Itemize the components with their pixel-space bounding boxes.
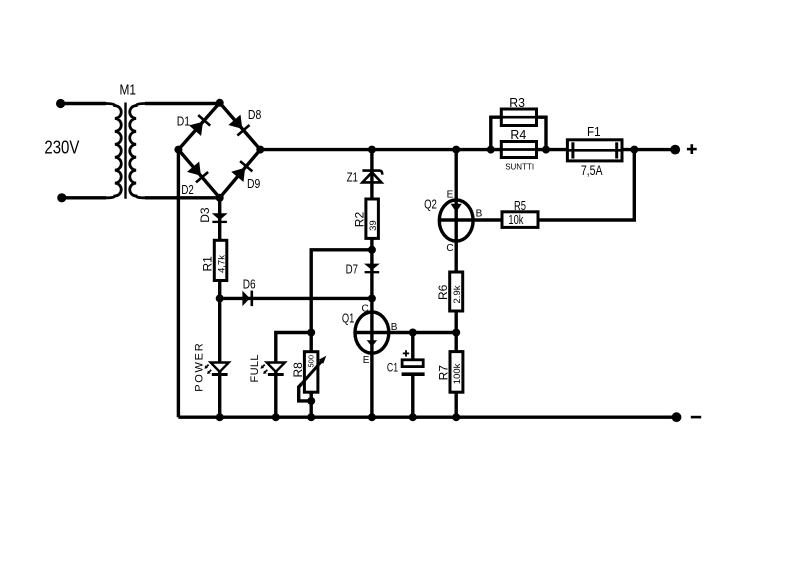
svg-text:R2: R2: [352, 212, 366, 228]
svg-text:B: B: [391, 322, 398, 333]
svg-text:R6: R6: [436, 284, 450, 300]
svg-text:C1: C1: [387, 362, 398, 374]
svg-text:D9: D9: [247, 176, 260, 191]
svg-text:Q1: Q1: [342, 310, 355, 325]
svg-text:E: E: [447, 190, 454, 201]
svg-text:R5: R5: [514, 198, 526, 213]
svg-text:B: B: [476, 209, 483, 220]
svg-text:R3: R3: [509, 95, 525, 110]
svg-text:C: C: [361, 304, 368, 315]
svg-text:230V: 230V: [44, 137, 79, 157]
svg-text:Q2: Q2: [424, 197, 437, 212]
svg-text:D7: D7: [346, 262, 358, 277]
svg-text:39: 39: [368, 220, 379, 231]
svg-text:POWER: POWER: [193, 343, 205, 392]
svg-text:E: E: [363, 355, 370, 366]
svg-text:D2: D2: [181, 182, 193, 197]
svg-text:500: 500: [307, 355, 316, 368]
svg-text:M1: M1: [120, 82, 137, 99]
svg-text:D8: D8: [248, 107, 261, 122]
svg-text:10k: 10k: [508, 213, 524, 227]
svg-text:R8: R8: [291, 362, 305, 378]
svg-text:2.9k: 2.9k: [452, 285, 463, 303]
svg-text:R7: R7: [437, 365, 451, 381]
svg-text:4,7k: 4,7k: [216, 255, 227, 273]
svg-text:D6: D6: [243, 277, 256, 292]
svg-text:R1: R1: [201, 256, 215, 272]
svg-text:FULL: FULL: [249, 355, 261, 383]
svg-text:Z1: Z1: [347, 169, 358, 184]
svg-text:R4: R4: [510, 127, 526, 142]
svg-text:SUNTTI: SUNTTI: [505, 162, 534, 171]
svg-text:F1: F1: [587, 124, 601, 139]
svg-text:D3: D3: [198, 207, 212, 223]
svg-text:C: C: [446, 243, 453, 254]
svg-text:7,5A: 7,5A: [581, 162, 603, 178]
svg-text:D1: D1: [177, 113, 190, 128]
svg-text:100k: 100k: [452, 363, 463, 384]
